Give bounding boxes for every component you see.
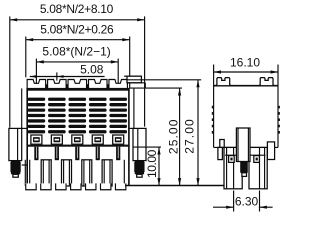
svg-text:5.08*N/2+8.10: 5.08*N/2+8.10 xyxy=(40,2,114,16)
svg-text:6.30: 6.30 xyxy=(235,194,259,208)
svg-text:25.00: 25.00 xyxy=(167,119,181,155)
svg-text:5.08: 5.08 xyxy=(80,62,104,76)
svg-text:16.10: 16.10 xyxy=(230,55,260,69)
svg-text:5.08*N/2+0.26: 5.08*N/2+0.26 xyxy=(40,23,114,37)
svg-text:10.00: 10.00 xyxy=(145,149,159,178)
svg-text:27.00: 27.00 xyxy=(183,118,197,154)
svg-text:5.08*(N/2−1): 5.08*(N/2−1) xyxy=(42,44,110,58)
